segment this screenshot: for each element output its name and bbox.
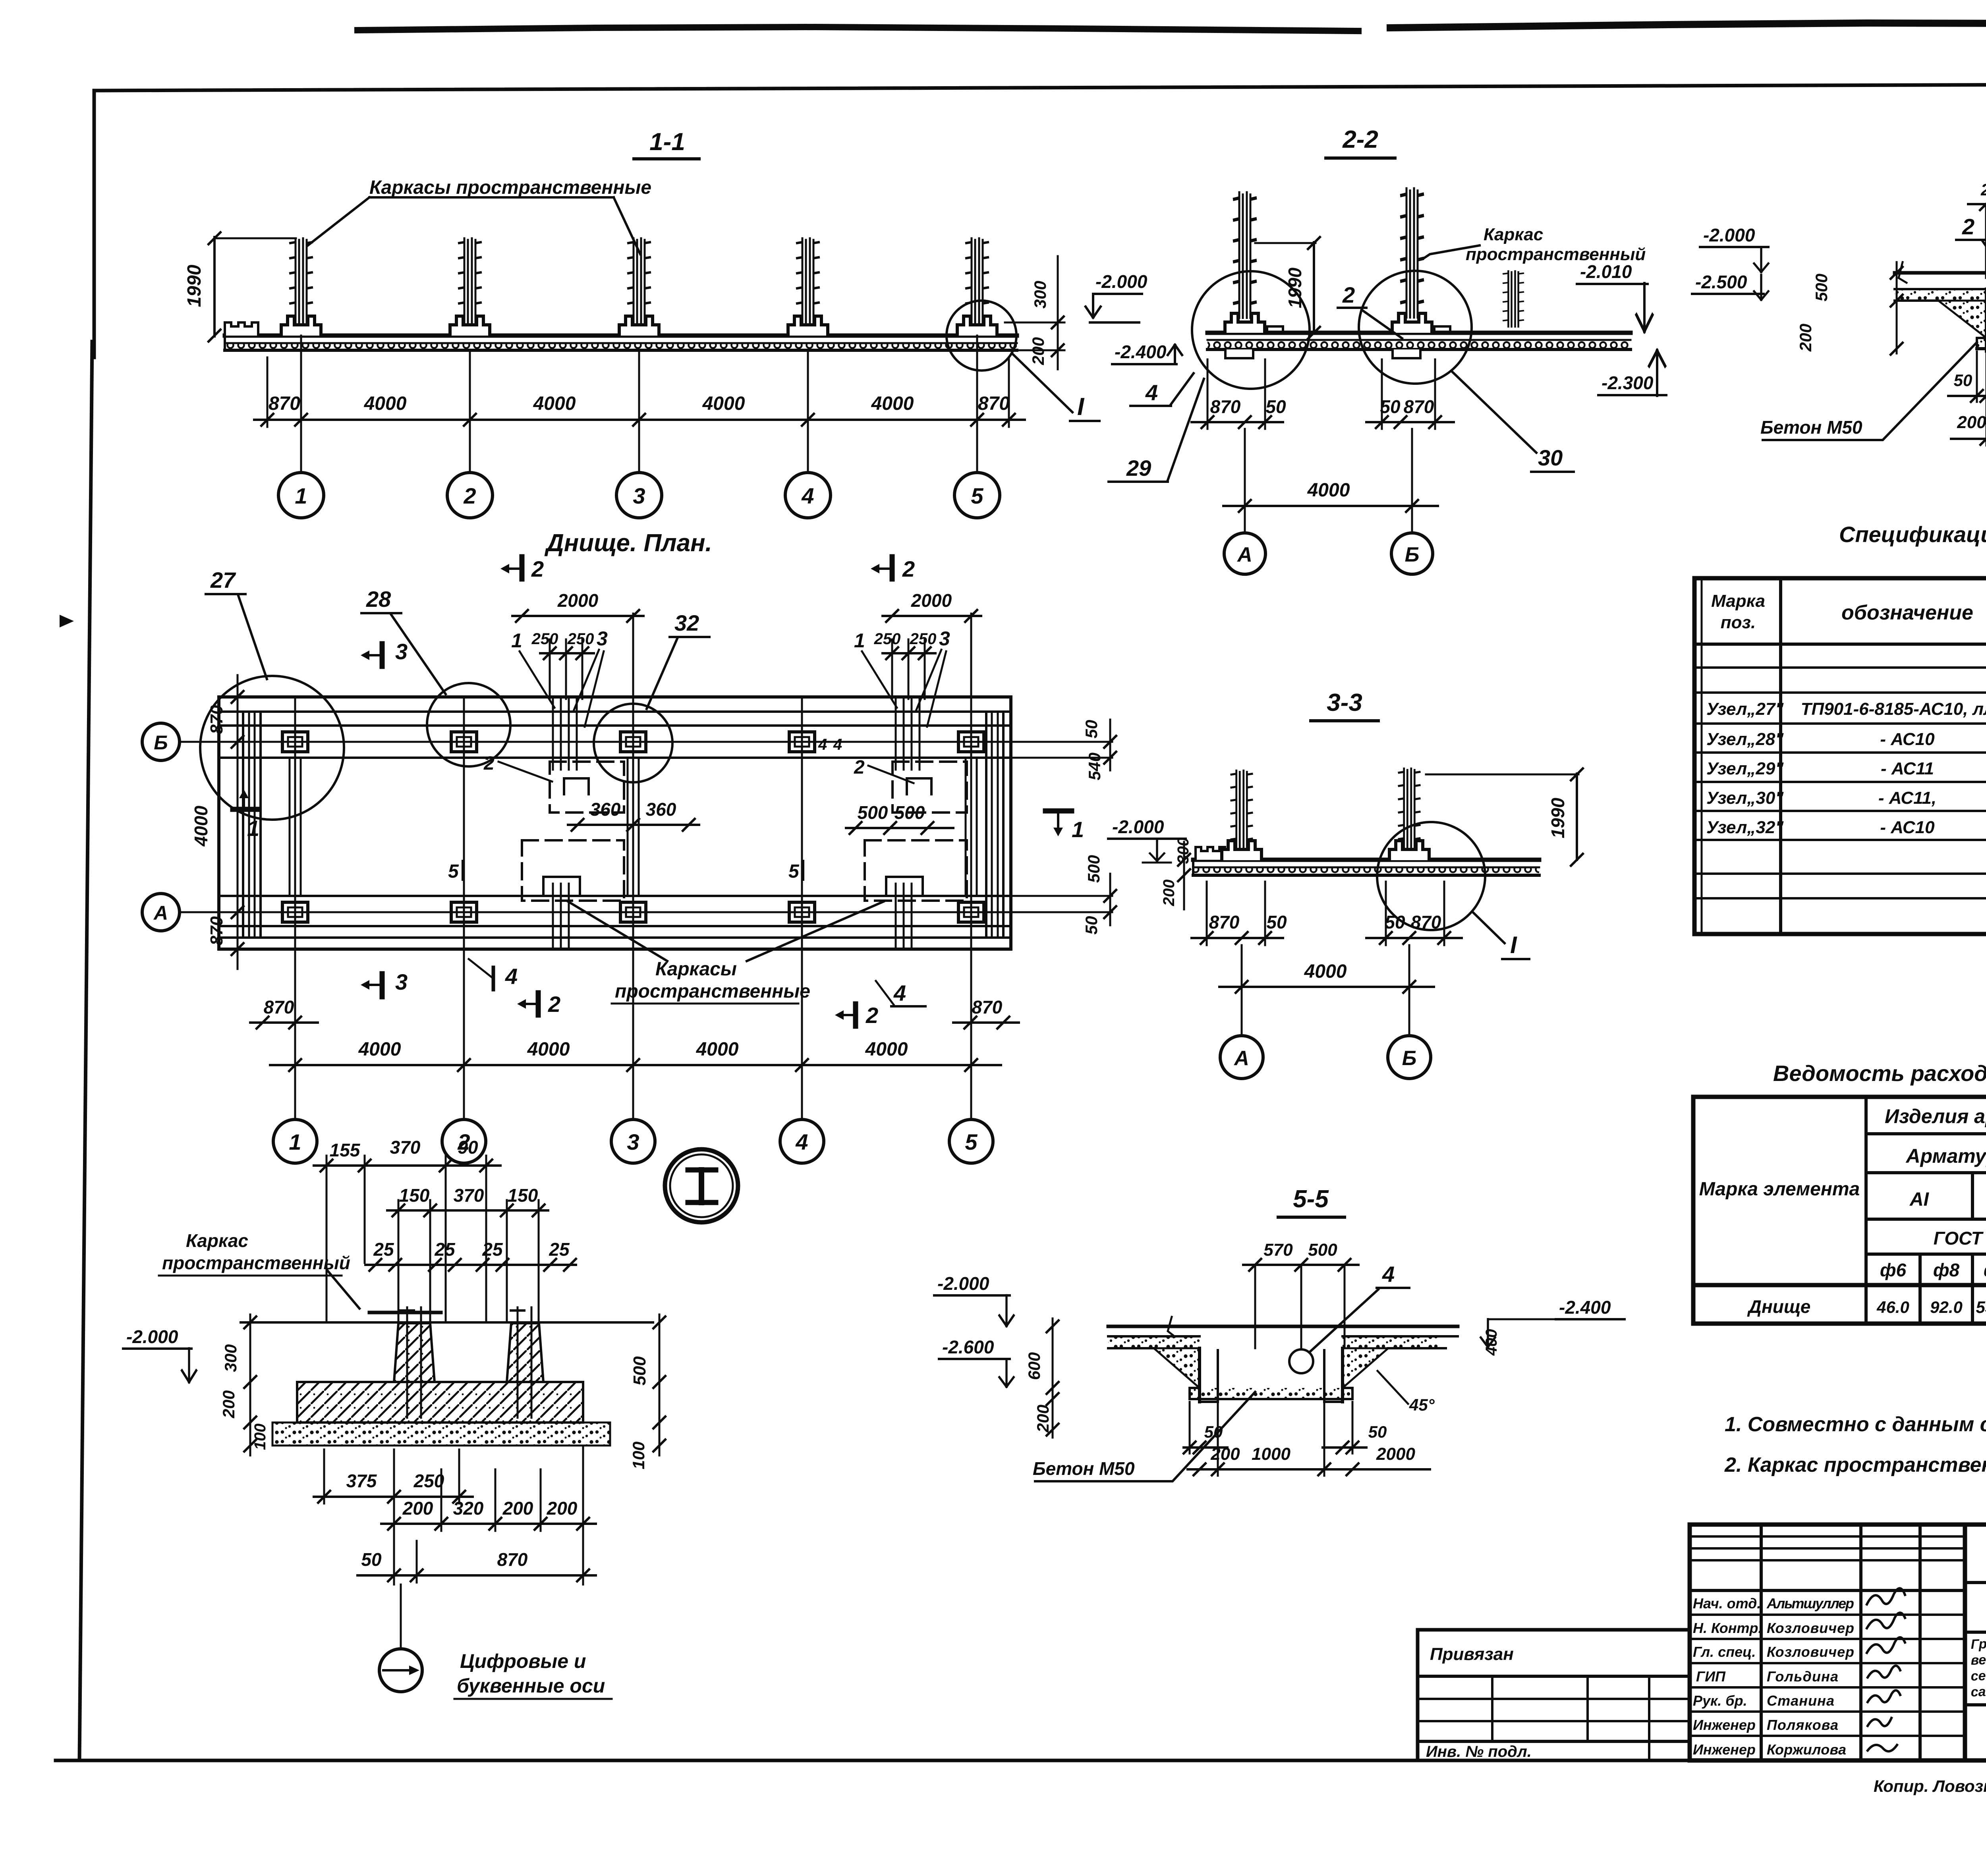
svg-text:1-1: 1-1	[649, 128, 685, 156]
svg-text:50: 50	[1082, 916, 1101, 935]
svg-text:Копир. Ловозкина: Копир. Ловозкина	[1874, 1777, 1986, 1795]
svg-text:1: 1	[247, 816, 259, 841]
section mark 2 top right	[890, 557, 895, 579]
bottom dims 200 1000 200	[1951, 438, 1986, 440]
rebar cage axis 5	[966, 238, 988, 329]
svg-text:4000: 4000	[1304, 961, 1347, 982]
cage base axis 4	[788, 316, 828, 336]
svg-text:5: 5	[971, 483, 983, 508]
left vertical dims 300/200/100	[249, 1314, 251, 1455]
svg-text:Узел„28": Узел„28"	[1706, 730, 1784, 749]
section mark 2 bottom left	[536, 993, 541, 1015]
svg-text:25: 25	[549, 1239, 570, 1260]
svg-text:375: 375	[346, 1471, 377, 1491]
middle band line	[1965, 1631, 1986, 1634]
axis circle A	[1224, 533, 1265, 574]
pit floor strip	[1190, 1388, 1352, 1399]
svg-text:4: 4	[1145, 380, 1158, 405]
svg-text:-2.000: -2.000	[937, 1273, 989, 1294]
svg-text:500: 500	[894, 802, 925, 823]
svg-text:250: 250	[531, 630, 558, 648]
svg-text:870: 870	[497, 1549, 528, 1570]
svg-text:Днище. План.: Днище. План.	[544, 529, 712, 557]
frame left lower part	[79, 342, 92, 1760]
svg-text:2: 2	[1342, 282, 1355, 307]
bottom dim row 50 870	[357, 1574, 596, 1577]
svg-text:буквенные оси: буквенные оси	[457, 1675, 605, 1697]
dims 50 870 right	[1366, 421, 1454, 423]
left axis circle A	[142, 894, 180, 931]
axis line to circle	[400, 1585, 402, 1649]
svg-text:1990: 1990	[184, 264, 205, 307]
vertical dim 1990	[1313, 242, 1315, 333]
svg-text:Каркасы пространственные: Каркасы пространственные	[369, 177, 651, 198]
top surface line	[1895, 271, 1986, 275]
detail circle 32	[594, 704, 672, 782]
notes	[1724, 1413, 1986, 1476]
bottom dim 870 left	[250, 1021, 318, 1024]
svg-text:600: 600	[1025, 1352, 1043, 1380]
right rib	[507, 1323, 543, 1382]
detail I circled symbol	[665, 1149, 738, 1222]
bedding dotted band	[272, 1422, 610, 1446]
svg-text:1: 1	[1072, 817, 1084, 842]
svg-text:-2.600: -2.600	[942, 1337, 994, 1357]
svg-text:Узел„27": Узел„27"	[1706, 699, 1784, 719]
svg-text:3: 3	[395, 969, 408, 994]
svg-text:Узел„30": Узел„30"	[1706, 788, 1784, 808]
left vertical dim 500/200	[1896, 262, 1898, 353]
svg-text:пространственные: пространственные	[615, 981, 810, 1002]
top dim 2000 right	[883, 615, 981, 617]
svg-text:3: 3	[627, 1129, 639, 1154]
cage base axis B	[1389, 841, 1429, 860]
svg-text:500: 500	[1812, 274, 1831, 301]
svg-text:1990: 1990	[1547, 797, 1568, 838]
cage base axis 5	[957, 316, 997, 336]
mid-wall cage lines axis 3	[627, 758, 629, 896]
svg-text:Б: Б	[1405, 543, 1420, 566]
leader to cage 1	[308, 197, 369, 245]
detail circle I	[1377, 822, 1485, 930]
plan axis circle 1	[273, 1119, 317, 1163]
svg-text:50: 50	[1368, 1422, 1387, 1441]
right ledge strip	[1343, 1336, 1438, 1348]
svg-text:29: 29	[1126, 455, 1151, 481]
header row lines	[1866, 1132, 1986, 1135]
svg-text:-2.400: -2.400	[1559, 1297, 1611, 1318]
spec table frame	[1694, 578, 1986, 934]
svg-text:4000: 4000	[865, 1039, 908, 1060]
svg-text:200: 200	[502, 1498, 533, 1519]
svg-text:4000: 4000	[1307, 480, 1350, 501]
cage base axis 2	[450, 316, 490, 336]
item circle 4	[1289, 1349, 1313, 1373]
svg-text:90: 90	[458, 1137, 478, 1158]
axis circle	[379, 1649, 422, 1692]
svg-text:250: 250	[413, 1471, 444, 1491]
axis circle 4	[785, 473, 831, 518]
axis circle B	[1388, 1036, 1431, 1079]
svg-text:Б: Б	[1402, 1047, 1417, 1070]
svg-text:1990: 1990	[1285, 267, 1305, 308]
svg-text:360: 360	[590, 799, 621, 820]
svg-text:Спецификация к схеме днища: Спецификация к схеме днища	[1839, 522, 1986, 547]
svg-text:870: 870	[978, 393, 1010, 414]
svg-text:-2.400: -2.400	[1115, 342, 1167, 362]
dashed box top left	[550, 762, 624, 813]
svg-text:ГОСТ 5781-82: ГОСТ 5781-82	[1934, 1228, 1986, 1249]
svg-text:2: 2	[854, 757, 865, 778]
title block outer	[1690, 1525, 1986, 1760]
svg-text:4: 4	[893, 980, 906, 1006]
plan axis circle 3	[611, 1119, 655, 1163]
svg-text:1000: 1000	[1252, 1444, 1291, 1464]
bottom slab	[225, 334, 1017, 338]
svg-text:2: 2	[531, 556, 544, 581]
frame bottom line	[56, 1759, 1986, 1762]
plan axis circle 4	[780, 1119, 824, 1163]
steel table frame	[1693, 1097, 1986, 1324]
axis B horizontal	[180, 741, 1041, 743]
cage bars top joint right	[895, 697, 897, 770]
svg-text:I: I	[1510, 932, 1517, 958]
cage base axis 3	[619, 316, 659, 336]
svg-text:-2.000: -2.000	[1703, 225, 1755, 245]
svg-text:2. Каркас пространственный: 2. Каркас пространственный см. ал.III ли…	[1724, 1453, 1986, 1476]
svg-text:4000: 4000	[696, 1039, 739, 1060]
rebar cage axis B	[1399, 768, 1419, 848]
svg-text:А: А	[153, 902, 168, 924]
svg-text:Марка: Марка	[1711, 591, 1765, 611]
svg-text:200: 200	[1796, 324, 1815, 352]
svg-text:Привязан: Привязан	[1430, 1644, 1514, 1664]
axis lines	[1241, 945, 1243, 1036]
svg-text:2: 2	[865, 1003, 878, 1028]
cage bars top joint left	[552, 697, 554, 770]
svg-text:50: 50	[1265, 396, 1286, 417]
slab band	[1193, 858, 1539, 862]
svg-text:2-2: 2-2	[1342, 126, 1378, 153]
svg-text:-2.010: -2.010	[1580, 261, 1632, 282]
top small revision rows	[1690, 1535, 1965, 1538]
svg-text:Коржилова: Коржилова	[1767, 1741, 1846, 1758]
svg-text:- АС10: - АС10	[1880, 818, 1935, 837]
svg-text:27: 27	[210, 567, 236, 593]
axis A horizontal	[180, 911, 1041, 913]
svg-text:540: 540	[1085, 753, 1104, 780]
svg-text:3: 3	[597, 627, 608, 650]
svg-text:-2.300: -2.300	[1602, 372, 1654, 393]
slab left end block	[1196, 847, 1225, 860]
detail circle 28	[427, 683, 510, 766]
svg-text:92.0: 92.0	[1930, 1298, 1963, 1316]
svg-text:Днище: Днище	[1747, 1296, 1811, 1317]
svg-text:4: 4	[818, 736, 827, 753]
left ledge strip	[1108, 1335, 1200, 1338]
caged crossbar	[369, 1311, 441, 1314]
plan axis circle 5	[949, 1119, 993, 1163]
svg-text:45°: 45°	[1409, 1395, 1435, 1414]
svg-text:150: 150	[399, 1185, 430, 1206]
slab hatched body	[297, 1382, 583, 1422]
svg-text:32: 32	[674, 610, 699, 635]
svg-text:ф8: ф8	[1933, 1260, 1960, 1280]
right wall verticals	[985, 712, 987, 938]
svg-text:2: 2	[1962, 214, 1974, 239]
bottom dim 870 right	[953, 1021, 1019, 1024]
section mark 3 top	[380, 644, 385, 666]
svg-text:870: 870	[972, 997, 1003, 1017]
svg-text:А: А	[1236, 543, 1252, 566]
svg-text:3: 3	[939, 627, 950, 650]
svg-text:4000: 4000	[191, 805, 211, 847]
registration mark left margin	[60, 615, 74, 627]
svg-text:250: 250	[874, 630, 901, 648]
dim 50 right	[1323, 1446, 1366, 1449]
cage base axis A	[1222, 841, 1262, 860]
axis verticals 1..5	[294, 697, 296, 1119]
svg-text:50: 50	[1266, 912, 1287, 932]
bottom dim row 375 250	[314, 1496, 473, 1498]
svg-text:4000: 4000	[358, 1039, 401, 1060]
svg-text:А: А	[1233, 1047, 1249, 1070]
svg-text:4000: 4000	[702, 393, 745, 414]
channel walls	[1198, 1348, 1201, 1402]
svg-text:870: 870	[264, 997, 294, 1017]
axis circle 5	[954, 473, 1000, 518]
svg-text:4: 4	[795, 1129, 808, 1154]
svg-text:100: 100	[251, 1424, 269, 1450]
svg-text:Узел„32": Узел„32"	[1706, 818, 1784, 837]
svg-text:3-3: 3-3	[1327, 689, 1362, 716]
section mark 2 bottom right	[853, 1004, 858, 1026]
svg-text:2000: 2000	[911, 590, 952, 611]
svg-text:200: 200	[1029, 337, 1047, 365]
svg-text:2000: 2000	[557, 590, 599, 611]
bottom band line	[1965, 1703, 1986, 1706]
svg-text:3: 3	[395, 639, 408, 664]
svg-text:-2.000: -2.000	[126, 1326, 178, 1347]
right vertical dim line	[1057, 256, 1059, 369]
svg-text:50: 50	[1954, 371, 1972, 390]
divider AI/AIII	[1971, 1173, 1974, 1219]
left ledge line	[1895, 288, 1986, 290]
svg-text:4000: 4000	[871, 393, 914, 414]
left rib	[394, 1323, 435, 1382]
svg-text:5: 5	[448, 861, 459, 882]
svg-text:Гольдина: Гольдина	[1767, 1668, 1838, 1685]
phi row dividers	[1918, 1254, 1922, 1324]
svg-text:50: 50	[1082, 720, 1101, 739]
bottom dims 4000 x4	[270, 1064, 1001, 1066]
svg-text:200: 200	[1034, 1405, 1052, 1433]
svg-text:АI: АI	[1909, 1189, 1930, 1210]
top band lines	[219, 710, 1011, 713]
svg-text:I: I	[1077, 393, 1085, 421]
svg-text:- АС10: - АС10	[1880, 730, 1935, 749]
column squares row B	[282, 732, 984, 752]
svg-text:200: 200	[402, 1498, 433, 1519]
axis circle A	[1220, 1036, 1263, 1079]
left haunch triangle	[1154, 1348, 1200, 1388]
dims 500 500	[846, 827, 953, 829]
top dims 570 500	[1243, 1264, 1358, 1266]
svg-text:Инв. № подл.: Инв. № подл.	[1426, 1743, 1532, 1760]
plan outer contour	[219, 697, 1011, 949]
left axis circle B	[142, 723, 180, 760]
svg-text:870: 870	[1404, 396, 1434, 417]
svg-text:870: 870	[207, 705, 226, 734]
svg-text:3: 3	[633, 483, 645, 508]
svg-text:25: 25	[482, 1239, 503, 1260]
svg-text:500: 500	[858, 802, 888, 823]
cage bars in left rib	[406, 1307, 408, 1418]
svg-text:Козловичер: Козловичер	[1767, 1620, 1854, 1636]
bottom dim row 200 320 200 200	[381, 1523, 596, 1525]
dims 360 360	[568, 824, 699, 826]
designation cell line	[1965, 1581, 1986, 1584]
dimension line 870/4000s	[254, 419, 1025, 421]
dashed box bottom left	[522, 840, 624, 901]
svg-text:537.2: 537.2	[1976, 1298, 1986, 1316]
cage base axis 1	[281, 316, 321, 336]
svg-text:ф6: ф6	[1880, 1260, 1907, 1280]
axis circle B	[1391, 533, 1433, 574]
leader to cage 3	[614, 197, 640, 254]
svg-text:Бетон М50: Бетон М50	[1033, 1458, 1135, 1479]
svg-text:ТП901-6-8185-АС10, лл.III: ТП901-6-8185-АС10, лл.III	[1801, 699, 1986, 719]
svg-text:-2.000: -2.000	[1112, 816, 1164, 837]
svg-text:4: 4	[833, 736, 842, 753]
slab left end block	[225, 322, 258, 336]
svg-text:360: 360	[646, 799, 676, 820]
axis circle 1	[278, 473, 324, 518]
svg-text:4: 4	[1382, 1262, 1395, 1287]
svg-text:570: 570	[1263, 1240, 1293, 1260]
svg-text:ф6: ф6	[1984, 1260, 1986, 1280]
vertical dim 1990	[213, 237, 216, 336]
detail circle 29	[1192, 271, 1310, 389]
edge cage stub right	[1504, 271, 1523, 327]
svg-text:4000: 4000	[533, 393, 576, 414]
svg-text:25: 25	[373, 1239, 394, 1260]
right haunch triangle	[1343, 1348, 1388, 1388]
svg-text:5-5: 5-5	[1293, 1185, 1329, 1213]
svg-text:50: 50	[1385, 912, 1405, 932]
axis circle 3	[616, 473, 662, 518]
svg-text:46.0: 46.0	[1876, 1298, 1909, 1316]
mid-wall cage lines axis 1	[289, 758, 291, 896]
plan axis circle 2	[442, 1119, 486, 1163]
axis circle 2	[447, 473, 493, 518]
svg-text:Альтшуллер: Альтшуллер	[1766, 1595, 1854, 1612]
svg-text:200: 200	[219, 1390, 238, 1419]
svg-text:370: 370	[390, 1137, 421, 1158]
dim 50 left	[1184, 1446, 1227, 1449]
spec column lines	[1779, 578, 1782, 934]
signature rows	[1690, 1614, 1965, 1616]
leader underline	[369, 196, 614, 199]
dim 4000	[1223, 505, 1438, 507]
dims 250 250 right	[883, 652, 935, 654]
section mark 1 right	[1045, 809, 1072, 814]
svg-text:250: 250	[567, 630, 594, 648]
svg-text:Полякова: Полякова	[1767, 1717, 1838, 1733]
svg-text:1: 1	[295, 483, 307, 508]
svg-text:870: 870	[269, 393, 300, 414]
detail circle I on axis 5 base	[947, 301, 1016, 371]
node block at axis A	[1225, 313, 1265, 333]
svg-text:200: 200	[1210, 1444, 1240, 1464]
svg-text:25: 25	[434, 1239, 456, 1260]
svg-text:250: 250	[1980, 180, 1986, 199]
rebar cage axis 4	[797, 238, 819, 329]
svg-text:2: 2	[548, 992, 560, 1017]
svg-text:4: 4	[801, 483, 814, 508]
dashed box bottom right	[865, 840, 967, 901]
svg-text:Каркас: Каркас	[186, 1230, 248, 1251]
rebar cage axis 2	[459, 238, 481, 329]
top dims 250 500 250	[1968, 203, 1986, 205]
svg-text:Ведомость расхода стали на: Ведомость расхода стали на элемент, кг	[1773, 1061, 1986, 1086]
bottom dims 200 1000 2000	[1188, 1468, 1430, 1471]
cage bars bottom joint left	[552, 884, 554, 949]
svg-text:Арматура класса: Арматура класса	[1905, 1145, 1986, 1167]
svg-text:320: 320	[453, 1498, 484, 1519]
svg-text:300: 300	[1031, 281, 1049, 309]
svg-text:Изделия арматурные: Изделия арматурные	[1885, 1105, 1986, 1127]
svg-text:Инженер: Инженер	[1693, 1741, 1756, 1758]
svg-text:Н. Контр.: Н. Контр.	[1693, 1620, 1762, 1636]
svg-text:-2.000: -2.000	[1095, 271, 1148, 292]
rebar cage axis B	[1401, 189, 1423, 317]
left extension block	[1418, 1630, 1690, 1760]
svg-text:155: 155	[330, 1140, 361, 1160]
svg-text:пространственный: пространственный	[162, 1253, 350, 1273]
svg-text:28: 28	[366, 587, 391, 612]
svg-text:400: 400	[1483, 1329, 1500, 1356]
rib top line	[241, 1321, 653, 1324]
dims 870 50 left	[1192, 937, 1283, 939]
svg-text:Бетон М50: Бетон М50	[1760, 417, 1862, 438]
dims 870 50 left	[1192, 421, 1283, 423]
svg-text:5: 5	[965, 1129, 978, 1154]
pit floor strip	[1977, 338, 1986, 349]
svg-text:150: 150	[508, 1185, 538, 1206]
dim 4000	[1219, 986, 1434, 988]
rebar cage axis A	[1231, 770, 1252, 848]
mid-wall cage lines axis 5	[965, 758, 967, 896]
marka column	[1864, 1097, 1868, 1324]
rebar cage axis 1	[290, 238, 312, 329]
svg-text:300: 300	[221, 1344, 240, 1372]
svg-text:-2.500: -2.500	[1695, 272, 1747, 292]
section mark 2 top left	[520, 557, 525, 579]
vertical dividers left part	[1760, 1525, 1763, 1760]
svg-text:370: 370	[454, 1185, 484, 1206]
svg-text:Гл. спец.: Гл. спец.	[1693, 1644, 1756, 1660]
bottom band lines	[219, 895, 1011, 897]
svg-text:4000: 4000	[527, 1039, 570, 1060]
right vertical dims 500/100	[659, 1314, 661, 1455]
svg-text:Козловичер: Козловичер	[1767, 1644, 1854, 1660]
svg-text:- АС11,: - АС11,	[1878, 788, 1936, 808]
svg-text:500: 500	[630, 1356, 649, 1386]
dim row 25 25 25 25	[365, 1264, 576, 1266]
svg-text:1: 1	[854, 629, 865, 652]
svg-text:200: 200	[1957, 413, 1986, 432]
